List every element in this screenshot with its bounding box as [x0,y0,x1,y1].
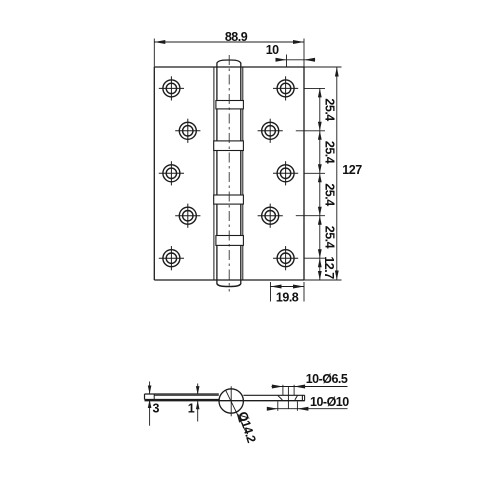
svg-text:25.4: 25.4 [322,226,336,249]
svg-text:25.4: 25.4 [322,183,336,206]
svg-text:10-Ø6.5: 10-Ø6.5 [306,372,348,386]
svg-text:1: 1 [188,402,195,416]
svg-text:10: 10 [266,43,279,57]
svg-text:10-Ø10: 10-Ø10 [310,395,349,409]
svg-text:127: 127 [342,163,362,177]
svg-text:3: 3 [152,402,159,416]
svg-text:12.7: 12.7 [322,256,336,279]
svg-text:88.9: 88.9 [225,30,248,44]
svg-text:25.4: 25.4 [322,141,336,164]
svg-text:19.8: 19.8 [276,290,299,304]
svg-text:25.4: 25.4 [322,98,336,121]
